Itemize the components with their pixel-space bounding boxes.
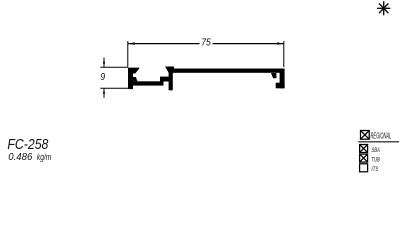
dimension 9: top extension line [100,66,128,68]
svg-text:75: 75 [201,38,211,49]
profile: left vertical bar [128,68,133,90]
dimension 9: bottom arrowhead (pointing up) [103,88,105,94]
dimension 75: right arrowhead [277,42,284,45]
legend: separator line [358,141,399,143]
legend: SBA checkbox (checked) [360,145,368,153]
svg-text:ITS: ITS [371,166,378,173]
profile: left middle nub [133,77,138,81]
dimension 75: left arrowhead [128,42,135,45]
svg-text:kg/m: kg/m [37,151,52,162]
dimension 9: bottom extension line [100,87,128,89]
svg-text:0.486: 0.486 [8,152,33,163]
dimension 75: right extension line [283,41,285,67]
dimension 75: dimension line [128,43,200,45]
legend: REGIONAL checkbox (checked) [361,131,370,140]
profile: central top flange (gasket hook) [165,67,174,73]
profile: right vertical wall [280,73,285,89]
legend: ITS checkbox (unchecked) [360,164,368,172]
profile: right under-bar nub [271,73,276,78]
dimension 75: left extension line [127,41,129,67]
profile cross-section FC-258 [128,67,285,91]
asterisk symbol top right [378,2,390,15]
profile: central fin [169,68,173,90]
svg-text:SBA: SBA [371,147,380,154]
dimension 9: lower dimension line tail [103,88,105,98]
profile: top bar [173,69,285,73]
profile: left top flange (gasket hook) [133,68,139,74]
profile: right bottom foot [276,83,285,89]
profile: bottom web [133,81,164,85]
dimension 9: top arrowhead (pointing down) [103,62,105,68]
svg-text:9: 9 [100,72,105,83]
profile: step-up web [160,77,170,82]
dimension 9: upper dimension line tail [103,58,105,68]
legend: TUB checkbox (checked) [360,154,368,162]
svg-text:REGIONAL: REGIONAL [371,132,392,141]
svg-text:TUB: TUB [371,157,380,164]
